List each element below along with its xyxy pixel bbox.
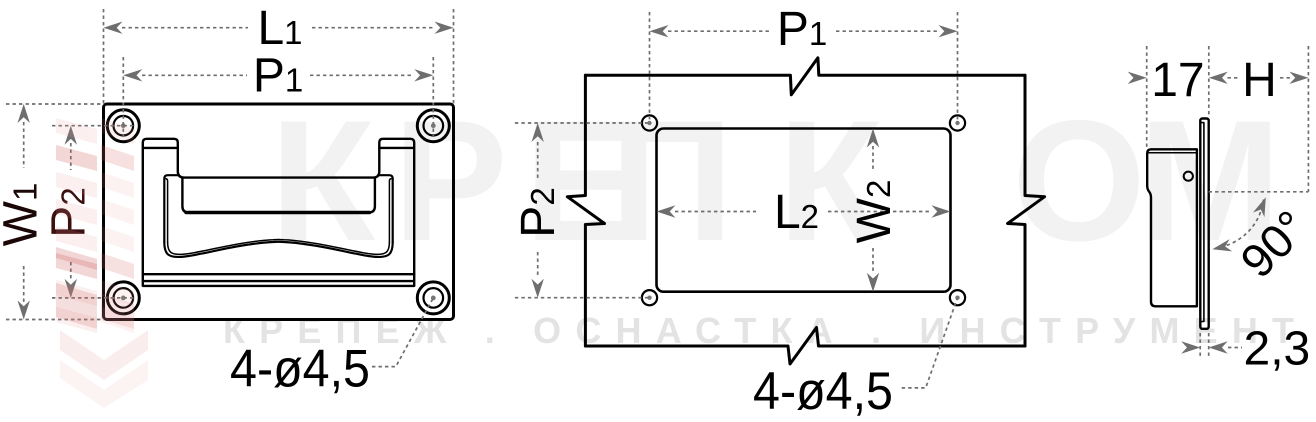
screw hole bottom-right (view 1): [417, 282, 449, 314]
leader line to 4-o4,5: [372, 298, 433, 367]
handle left ear: [143, 139, 178, 274]
drill hole top-right (view 2): [950, 115, 965, 130]
recess pocket wavy bottom outer: [164, 242, 392, 257]
dimension P1 line: [142, 74, 414, 76]
svg-text:17: 17: [1151, 54, 1204, 107]
dimension 2,3 line: [1228, 347, 1242, 349]
recess pocket wavy bottom inner: [168, 239, 390, 254]
body pin hole: [1184, 172, 1193, 181]
dimension P1 (view2) extension lines: [650, 12, 958, 123]
screw hole top-left (view 1): [107, 110, 139, 142]
panel outline with break symbols: [585, 58, 1025, 95]
recess pocket inner line left: [166, 179, 168, 242]
svg-text:2,3: 2,3: [1244, 323, 1311, 376]
dimension P2 extension lines: [52, 126, 134, 298]
dimension P2 (view2) extension lines: [515, 123, 650, 298]
svg-text:4-ø4,5: 4-ø4,5: [230, 339, 370, 398]
dimension 17/H extension lines: [1147, 46, 1309, 192]
svg-text:H: H: [1242, 54, 1277, 107]
recess pocket inner line right: [389, 179, 391, 242]
cutout rectangle: [657, 129, 951, 292]
drill hole bottom-left (view 2): [642, 290, 657, 305]
dimension 2,3 extension lines: [1200, 333, 1209, 359]
dimension P1 extension lines: [123, 57, 433, 136]
90 degree arc: [1218, 200, 1264, 248]
dimension P1 (view2) line: [668, 30, 938, 32]
dimension W2 line: [872, 146, 874, 272]
screw hole bottom-left (view 1): [107, 282, 139, 314]
flange plate: [1200, 119, 1208, 329]
handle body side: [1147, 149, 1197, 306]
dimension L2 line: [675, 211, 932, 213]
dimension arrows view 1: [18, 22, 454, 320]
handle bar top edge: [178, 148, 379, 178]
flange inner line: [1200, 123, 1204, 322]
handle right ear: [379, 139, 414, 274]
plate outline: [104, 104, 454, 320]
svg-text:4-ø4,5: 4-ø4,5: [753, 362, 893, 421]
dimension L1 line: [122, 27, 434, 29]
handle bar bottom thick edge: [186, 211, 370, 214]
dimension L1 extension lines: [104, 9, 454, 104]
body inner top line: [1149, 152, 1197, 154]
dimension P2 line: [70, 143, 72, 280]
svg-text:W1: W1: [0, 183, 48, 247]
corner dashed line: [1209, 191, 1309, 193]
recess bottom lines: [143, 274, 414, 286]
recess pocket top edge: [164, 175, 178, 242]
drill hole top-left (view 2): [642, 115, 657, 130]
dimension 17/H line: [1228, 77, 1291, 79]
dimension P2 (view2) line: [537, 142, 539, 278]
handle bar body: [182, 178, 375, 213]
dimension W1 extension lines: [6, 104, 104, 320]
screw hole top-right (view 1): [417, 110, 449, 142]
leader line to 4-o4,5 view2: [902, 298, 958, 388]
drill hole bottom-right (view 2): [950, 290, 965, 305]
dimension W1 line: [23, 122, 25, 302]
